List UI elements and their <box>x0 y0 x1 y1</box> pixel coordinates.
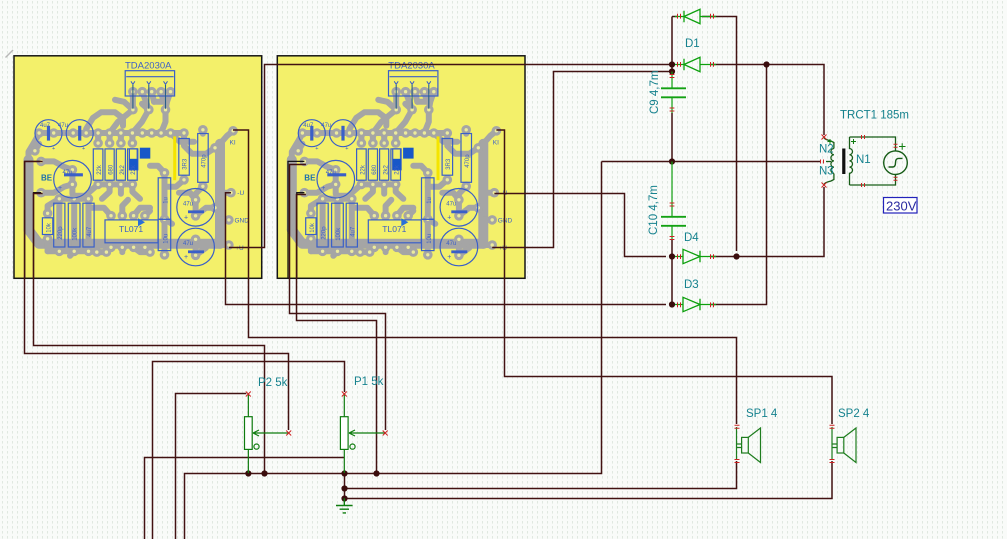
svg-text:SP1 4: SP1 4 <box>746 408 778 420</box>
svg-text:P2 5k: P2 5k <box>258 377 288 389</box>
svg-text:N1: N1 <box>856 154 871 166</box>
svg-text:TRCT1 185m: TRCT1 185m <box>840 110 909 122</box>
svg-text:D4: D4 <box>684 232 699 244</box>
svg-text:D1: D1 <box>685 38 700 50</box>
svg-text:SP2 4: SP2 4 <box>838 408 870 420</box>
svg-text:N2: N2 <box>819 144 834 156</box>
svg-text:C10 4,7m: C10 4,7m <box>648 185 660 235</box>
svg-text:C9 4,7m: C9 4,7m <box>649 71 661 114</box>
svg-text:P1 5k: P1 5k <box>354 376 384 388</box>
svg-text:D3: D3 <box>684 279 699 291</box>
svg-text:230V: 230V <box>886 199 917 214</box>
svg-text:N3: N3 <box>819 166 834 178</box>
